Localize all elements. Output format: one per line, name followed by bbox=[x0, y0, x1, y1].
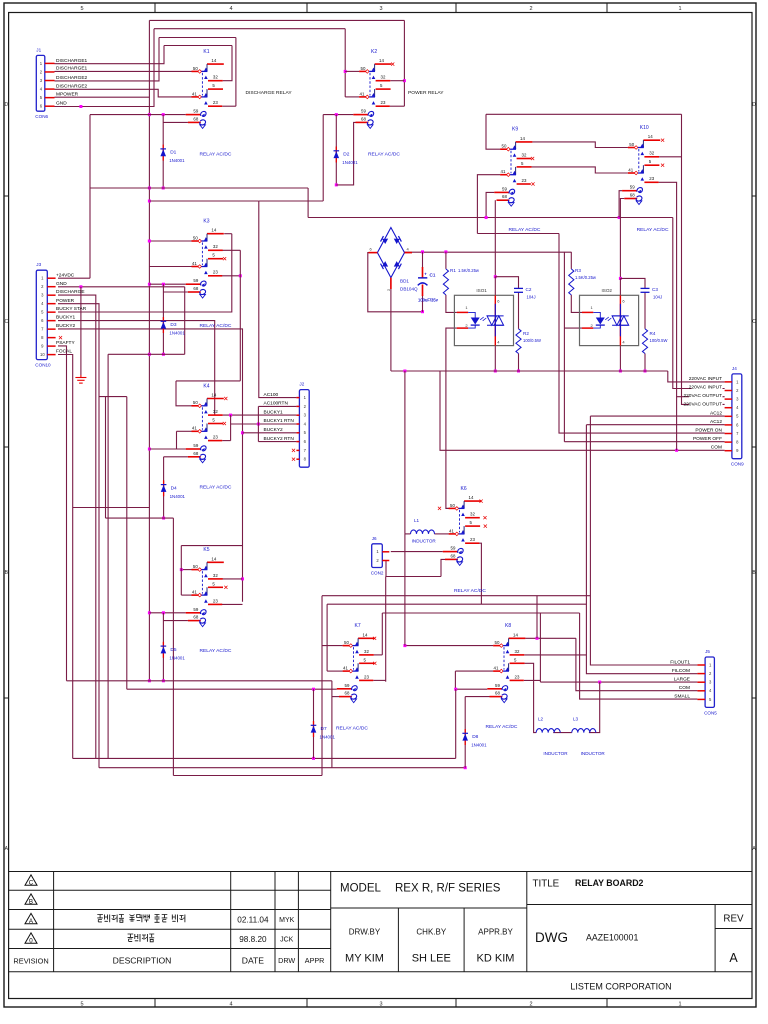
svg-text:J3: J3 bbox=[36, 262, 41, 267]
wire V230.6 bbox=[230, 415, 232, 441]
wire K4 pin32 to J2 pin3 bbox=[223, 414, 297, 416]
wire K9 pin14 to K10 pin50 bbox=[532, 142, 628, 148]
svg-text:POWER: POWER bbox=[56, 298, 75, 304]
svg-text:POWER RELAY: POWER RELAY bbox=[408, 90, 444, 96]
wire D1 chain bbox=[162, 115, 164, 188]
svg-text:59: 59 bbox=[495, 683, 500, 688]
wire V173.4 descent bbox=[172, 518, 174, 775]
junction bbox=[536, 637, 539, 640]
svg-text:DISCHARGE RELAY: DISCHARGE RELAY bbox=[246, 90, 293, 96]
svg-text:50: 50 bbox=[193, 66, 198, 71]
svg-text:32: 32 bbox=[381, 75, 386, 80]
svg-text:02.11.04: 02.11.04 bbox=[237, 916, 269, 925]
svg-text:K10: K10 bbox=[640, 125, 649, 131]
svg-text:68: 68 bbox=[345, 691, 350, 696]
relay K1 bbox=[186, 49, 224, 128]
svg-text:1: 1 bbox=[678, 6, 681, 12]
svg-text:RELAY AC/DC: RELAY AC/DC bbox=[336, 726, 368, 732]
svg-text:5: 5 bbox=[80, 1002, 83, 1008]
svg-text:BUCKY2 RTN: BUCKY2 RTN bbox=[264, 436, 295, 442]
junction bbox=[239, 274, 242, 277]
wire K9 pin41 loop bbox=[477, 175, 500, 234]
svg-text:KD KIM: KD KIM bbox=[477, 953, 515, 965]
relay K4 bbox=[186, 383, 224, 463]
svg-text:32: 32 bbox=[213, 573, 218, 578]
wire J5 pin4 route bbox=[576, 638, 698, 690]
svg-text:1N4001: 1N4001 bbox=[169, 331, 185, 336]
svg-text:K9: K9 bbox=[512, 127, 518, 133]
svg-text:14: 14 bbox=[379, 58, 384, 63]
svg-text:14: 14 bbox=[211, 228, 216, 233]
junction bbox=[162, 283, 165, 286]
svg-text:23: 23 bbox=[213, 100, 218, 105]
svg-text:K1: K1 bbox=[203, 49, 209, 55]
svg-text:CON5: CON5 bbox=[704, 710, 717, 715]
wire K3 pin41 ext bbox=[149, 266, 191, 268]
relay K3 bbox=[186, 219, 224, 299]
wire J5 pin5 route bbox=[580, 613, 698, 699]
svg-text:MODEL: MODEL bbox=[340, 883, 382, 895]
wire K7 pin32 ext bbox=[374, 654, 383, 656]
wire K8 pin41 ext bbox=[455, 670, 493, 672]
svg-text:DATE: DATE bbox=[242, 956, 265, 966]
svg-text:COM: COM bbox=[679, 685, 690, 691]
wire K4 loop top H381 bbox=[176, 380, 240, 382]
svg-text:L2: L2 bbox=[538, 717, 544, 722]
wire D3 chain bbox=[162, 284, 164, 354]
svg-text:41: 41 bbox=[494, 666, 499, 671]
svg-text:RELAY AC/DC: RELAY AC/DC bbox=[200, 648, 232, 654]
wire K5 pin41 ext bbox=[181, 594, 191, 596]
svg-text:INDUCTOR: INDUCTOR bbox=[543, 751, 568, 756]
wire K8 pin50 row bbox=[405, 645, 493, 647]
wire J2 pin2-pin6 link bbox=[258, 405, 296, 407]
wire V327.1 K7 pin41 bbox=[326, 604, 328, 671]
wire H595.7 bbox=[322, 595, 590, 597]
svg-text:32: 32 bbox=[364, 649, 369, 654]
wire V441 to K6 pin68 bbox=[441, 559, 445, 576]
junction bbox=[162, 517, 165, 520]
svg-text:14: 14 bbox=[469, 495, 474, 500]
svg-text:68: 68 bbox=[495, 691, 500, 696]
svg-text:41: 41 bbox=[192, 590, 197, 595]
svg-text:14: 14 bbox=[363, 632, 368, 637]
svg-text:BD1: BD1 bbox=[400, 279, 409, 284]
wire bridge bottom drop bbox=[390, 278, 392, 371]
wire K9 pin68 descent bbox=[494, 200, 496, 277]
wire H396.6 jog bbox=[99, 396, 127, 398]
junction bbox=[148, 187, 151, 190]
svg-text:23: 23 bbox=[470, 537, 475, 542]
wire C2-R2 mid bbox=[518, 292, 520, 329]
svg-text:1N4001: 1N4001 bbox=[342, 160, 358, 165]
svg-text:C: C bbox=[752, 319, 756, 325]
wire K2 flyback bottom bbox=[336, 122, 355, 184]
svg-text:41: 41 bbox=[192, 91, 197, 96]
svg-text:5: 5 bbox=[80, 6, 83, 12]
wire J3 pin6 BUCKY1 bbox=[58, 321, 215, 415]
svg-text:14: 14 bbox=[211, 393, 216, 398]
junction bbox=[619, 277, 622, 280]
svg-text:REVISION: REVISION bbox=[13, 956, 48, 965]
svg-text:K2: K2 bbox=[371, 49, 377, 55]
svg-text:32: 32 bbox=[515, 649, 520, 654]
wire V108 to bottom rail bbox=[107, 354, 109, 758]
svg-text:1.5K/0.25w: 1.5K/0.25w bbox=[458, 268, 480, 273]
svg-text:TITLE: TITLE bbox=[533, 879, 560, 890]
svg-text:MPOWER: MPOWER bbox=[56, 91, 79, 97]
wire ISO1 triac top bbox=[494, 277, 496, 296]
wire J6 pin1 to K6 pin59 bbox=[391, 551, 443, 553]
junction bbox=[494, 275, 497, 278]
junction bbox=[494, 370, 497, 373]
junction bbox=[148, 283, 151, 286]
wire bus H216 bbox=[308, 217, 673, 219]
svg-text:14: 14 bbox=[513, 632, 518, 637]
svg-text:+24VDC: +24VDC bbox=[56, 272, 75, 278]
wire V181.3 bbox=[180, 546, 182, 596]
svg-text:50: 50 bbox=[193, 400, 198, 405]
svg-text:J1: J1 bbox=[36, 47, 41, 52]
junction bbox=[148, 448, 151, 451]
svg-text:MYK: MYK bbox=[279, 917, 295, 924]
junction bbox=[421, 310, 424, 313]
wire V455.7 to rail bbox=[455, 689, 457, 758]
wire H201 right bbox=[259, 200, 323, 202]
svg-text:DISCHARGE: DISCHARGE bbox=[56, 289, 85, 295]
wire J4 pin1 from rail bbox=[668, 371, 725, 382]
svg-text:D2: D2 bbox=[343, 152, 349, 158]
svg-text:K5: K5 bbox=[203, 547, 209, 553]
wire V681.5 K10 pin32 to J4 pin4 bbox=[682, 114, 725, 404]
junction GND branch bbox=[79, 105, 82, 108]
svg-text:32: 32 bbox=[649, 151, 654, 156]
svg-text:59: 59 bbox=[193, 607, 198, 612]
svg-text:220VAC INPUT: 220VAC INPUT bbox=[689, 376, 722, 382]
wire J1 pin4 to K1 pin41 bbox=[55, 89, 192, 97]
junction bbox=[148, 200, 151, 203]
svg-text:50: 50 bbox=[361, 66, 366, 71]
svg-text:REX R, R/F SERIES: REX R, R/F SERIES bbox=[395, 883, 501, 895]
svg-text:1N4001: 1N4001 bbox=[170, 494, 186, 499]
wire C2 top link bbox=[495, 277, 518, 289]
revision triangle C bbox=[25, 875, 37, 885]
wire J3 pin1 +24V bbox=[58, 277, 90, 279]
svg-text:ISO1: ISO1 bbox=[476, 288, 487, 293]
svg-text:DB104Q: DB104Q bbox=[400, 287, 418, 292]
connector J5 CON5 bbox=[697, 649, 717, 715]
svg-text:FILOUT1: FILOUT1 bbox=[670, 659, 690, 665]
svg-text:B: B bbox=[29, 898, 33, 905]
svg-text:APPR: APPR bbox=[305, 956, 325, 965]
svg-text:BUCKY2: BUCKY2 bbox=[56, 323, 76, 329]
svg-text:FOCAL: FOCAL bbox=[56, 349, 72, 355]
wire K5 pin68 row bbox=[163, 620, 188, 622]
ground symbol bbox=[75, 375, 86, 383]
svg-text:2: 2 bbox=[529, 6, 532, 12]
svg-text:BUCKY STAR: BUCKY STAR bbox=[56, 306, 87, 312]
optocoupler ISO1 bbox=[454, 288, 513, 346]
svg-text:23: 23 bbox=[381, 100, 386, 105]
wire H201 bbox=[149, 200, 258, 202]
svg-text:D1: D1 bbox=[170, 150, 176, 156]
wire V455.4 bbox=[454, 671, 456, 689]
resistor R1 bbox=[443, 269, 448, 295]
inductor L1 bbox=[411, 518, 437, 544]
svg-text:23: 23 bbox=[522, 178, 527, 183]
junction bbox=[162, 353, 165, 356]
wire H507.5 bbox=[73, 507, 150, 509]
junction bbox=[180, 568, 183, 571]
wire D5 chain bbox=[162, 613, 164, 681]
wire left spine bbox=[148, 20, 150, 680]
wire D2 chain bbox=[335, 115, 337, 185]
wire J4 pin5 AC12 bbox=[590, 415, 724, 417]
svg-text:D: D bbox=[752, 102, 756, 108]
wire J3 pin4 POWER bbox=[58, 304, 99, 768]
wire R2 bottom bbox=[518, 354, 520, 372]
svg-text:D7: D7 bbox=[321, 726, 327, 732]
junction bbox=[148, 611, 151, 614]
junction bbox=[675, 449, 678, 452]
svg-text:GND: GND bbox=[56, 101, 67, 107]
svg-text:D5: D5 bbox=[170, 647, 176, 653]
wire V184.7 gnd to K3 loop bbox=[184, 287, 186, 355]
svg-text:23: 23 bbox=[364, 674, 369, 679]
svg-text:L3: L3 bbox=[573, 717, 579, 722]
junction bbox=[403, 370, 406, 373]
wire V235.9 bus3 to K1 pin23 bbox=[235, 38, 237, 107]
junction bbox=[241, 577, 244, 580]
wire J3 pin5 BUCKY START bbox=[58, 234, 232, 312]
svg-text:41: 41 bbox=[192, 261, 197, 266]
wire V486 to K9 pin50 bbox=[486, 114, 500, 149]
wire K1 flyback bottom H188 bbox=[90, 187, 308, 189]
svg-text:RELAY AC/DC: RELAY AC/DC bbox=[200, 152, 232, 158]
wire V404.9 lower bbox=[404, 534, 406, 646]
border zone ticks bottom bbox=[154, 999, 156, 1008]
svg-text:68: 68 bbox=[193, 615, 198, 620]
svg-text:104J: 104J bbox=[527, 295, 536, 300]
wire R1 top bbox=[445, 252, 447, 269]
junction bbox=[618, 216, 621, 219]
svg-text:AC100: AC100 bbox=[264, 392, 279, 398]
bridge terminals bbox=[369, 252, 378, 254]
svg-text:D3: D3 bbox=[170, 322, 176, 328]
wire J6 pin2 route bbox=[385, 560, 387, 576]
wire L3 right riser bbox=[589, 682, 600, 733]
svg-text:R2: R2 bbox=[523, 331, 529, 336]
svg-text:DRW.BY: DRW.BY bbox=[349, 928, 381, 937]
wire L2-L3 link bbox=[553, 732, 572, 734]
wire K3 pin32 ext bbox=[222, 249, 241, 251]
wire V537 bbox=[536, 596, 538, 639]
wire J4 pin8 POWER OFF bbox=[564, 441, 724, 443]
svg-text:23: 23 bbox=[213, 270, 218, 275]
svg-text:68: 68 bbox=[193, 116, 198, 121]
svg-text:41: 41 bbox=[192, 426, 197, 431]
svg-text:23: 23 bbox=[213, 435, 218, 440]
wire ISO2 triac bottom bbox=[619, 346, 621, 371]
svg-text:RELAY AC/DC: RELAY AC/DC bbox=[368, 152, 400, 158]
svg-text:LARGE: LARGE bbox=[674, 677, 690, 683]
revision triangle B bbox=[25, 894, 37, 904]
wire K9 pin5 to K10 pin41 bbox=[532, 167, 628, 173]
wire bus1 top bbox=[149, 19, 404, 21]
svg-text:POWER ON: POWER ON bbox=[695, 428, 722, 434]
wire V308 to bus216 bbox=[307, 188, 309, 218]
svg-text:23: 23 bbox=[515, 674, 520, 679]
junction bbox=[148, 240, 151, 243]
svg-text:59: 59 bbox=[193, 278, 198, 283]
svg-text:SMALL: SMALL bbox=[674, 694, 690, 700]
resistor R3 1.5K/0.25w bbox=[569, 269, 574, 295]
wire K10 pin23 to J4 pin3 bbox=[659, 182, 725, 396]
relay K5 bbox=[186, 547, 224, 627]
svg-text:3: 3 bbox=[379, 6, 382, 12]
svg-text:n: n bbox=[388, 287, 390, 292]
svg-text:59: 59 bbox=[451, 546, 456, 551]
svg-text:14: 14 bbox=[520, 136, 525, 141]
svg-text:23: 23 bbox=[213, 598, 218, 603]
wire H311 to C1 bbox=[391, 311, 423, 313]
wire J4 pin7 POWER ON bbox=[559, 234, 725, 434]
junction bbox=[444, 250, 447, 253]
svg-text:14: 14 bbox=[648, 134, 653, 139]
svg-text:DISCHARGE2: DISCHARGE2 bbox=[56, 83, 88, 89]
wire J4 pin9 COM link bbox=[440, 371, 725, 450]
svg-text:AC12: AC12 bbox=[710, 419, 722, 425]
junction bbox=[403, 79, 406, 82]
wire K5 pin59 row bbox=[149, 612, 185, 614]
svg-text:100uF/35v: 100uF/35v bbox=[418, 298, 439, 303]
wire K5 pin50 ext bbox=[181, 569, 191, 571]
diode D2 1N4001 bbox=[334, 147, 359, 166]
svg-text:LISTEM CORPORATION: LISTEM CORPORATION bbox=[570, 982, 671, 992]
relay K8 bbox=[487, 623, 525, 703]
wire K5 pin32 ext bbox=[222, 578, 243, 580]
junction bbox=[464, 766, 467, 769]
svg-text:41: 41 bbox=[449, 528, 454, 533]
wire K10 pin68 descent bbox=[620, 199, 624, 279]
junction bbox=[644, 370, 647, 373]
wire K9-K10 bus H114 bbox=[486, 113, 682, 115]
wire K8 pin59 row bbox=[456, 688, 488, 690]
svg-text:R3: R3 bbox=[575, 268, 581, 273]
svg-text:ISO2: ISO2 bbox=[602, 288, 613, 293]
wire K3 pin23 ext bbox=[221, 275, 240, 277]
wire V382.3 bbox=[381, 613, 383, 655]
wire K8 pin23 ext bbox=[524, 679, 541, 681]
wire V240.3 down to K4 loop bbox=[239, 250, 241, 381]
svg-text:J6: J6 bbox=[372, 536, 377, 541]
svg-text:CON9: CON9 bbox=[731, 462, 744, 467]
wire K3 pin50 ext bbox=[149, 240, 191, 242]
svg-text:59: 59 bbox=[193, 443, 198, 448]
junction bbox=[162, 611, 165, 614]
svg-text:1N4001: 1N4001 bbox=[471, 743, 487, 748]
svg-text:59: 59 bbox=[502, 186, 507, 191]
junction bbox=[162, 679, 165, 682]
svg-text:0: 0 bbox=[29, 937, 33, 944]
svg-text:BUCKY2: BUCKY2 bbox=[264, 427, 284, 433]
inductor L3 bbox=[572, 717, 606, 756]
svg-text:CON10: CON10 bbox=[35, 363, 51, 368]
svg-text:68: 68 bbox=[451, 553, 456, 558]
wire L1 feed V404.9 bbox=[404, 371, 406, 534]
junction bbox=[335, 183, 338, 186]
wire V676.6 lower bbox=[676, 397, 678, 451]
svg-text:RELAY AC/DC: RELAY AC/DC bbox=[200, 323, 232, 329]
svg-text:1: 1 bbox=[678, 1002, 681, 1008]
wire V126.8 descent bbox=[126, 397, 128, 690]
wire J4 pin6 AC12 bbox=[586, 424, 724, 426]
relay K10 bbox=[622, 125, 660, 205]
wire J1 pin6 GND to bus2 bbox=[55, 29, 155, 107]
svg-text:+: + bbox=[424, 272, 427, 277]
junction bbox=[148, 679, 151, 682]
junction bbox=[148, 240, 151, 243]
wire K7 pin59 row bbox=[127, 688, 337, 690]
wire V258.4 bbox=[257, 406, 259, 441]
revision row A text korean bbox=[97, 915, 185, 923]
J5 pin labels bbox=[672, 660, 690, 665]
svg-text:14: 14 bbox=[211, 556, 216, 561]
svg-text:50: 50 bbox=[502, 144, 507, 149]
svg-text:K8: K8 bbox=[505, 623, 511, 629]
wire GND symbol drop bbox=[80, 287, 82, 375]
junction bbox=[517, 370, 520, 373]
svg-text:JCK: JCK bbox=[280, 937, 294, 944]
optocoupler ISO2 bbox=[580, 288, 639, 346]
wire K2 pin59 row bbox=[323, 114, 353, 116]
svg-text:2: 2 bbox=[529, 1002, 532, 1008]
diode D1 1N4001 bbox=[160, 145, 185, 164]
svg-text:41: 41 bbox=[360, 91, 365, 96]
svg-text:R1: R1 bbox=[450, 268, 456, 273]
svg-text:D: D bbox=[4, 102, 8, 108]
svg-text:59: 59 bbox=[345, 683, 350, 688]
capacitor C2 104J bbox=[514, 287, 523, 289]
svg-text:AC12: AC12 bbox=[710, 410, 722, 416]
wire C1 bottom bbox=[422, 295, 424, 312]
wire J3 pin3 DISCHARGE bbox=[58, 295, 96, 758]
svg-text:DESCRIPTION: DESCRIPTION bbox=[113, 956, 172, 966]
svg-text:GND: GND bbox=[56, 281, 67, 287]
svg-text:50: 50 bbox=[193, 235, 198, 240]
revision triangle 0 bbox=[25, 933, 37, 943]
wire K4 pin68 row bbox=[164, 456, 188, 458]
wire J1 pin5 MPOWER bbox=[55, 96, 150, 98]
svg-text:C: C bbox=[29, 879, 34, 886]
svg-text:104J: 104J bbox=[653, 295, 662, 300]
wire K2 pin23 ext bbox=[390, 105, 405, 107]
svg-text:INDUCTOR: INDUCTOR bbox=[412, 539, 437, 544]
junction bbox=[454, 688, 457, 691]
wire V322 K7 pin50 bbox=[321, 596, 323, 776]
wire K3 pin14 riser ext bbox=[224, 233, 232, 235]
svg-text:CON6: CON6 bbox=[35, 114, 48, 119]
svg-text:PSAFTY: PSAFTY bbox=[56, 340, 75, 346]
svg-text:220VAC OUTPUT: 220VAC OUTPUT bbox=[683, 393, 722, 399]
svg-text:32: 32 bbox=[522, 152, 527, 157]
wire J2 pin6 row bbox=[258, 441, 296, 443]
wire J5 pin1 route bbox=[590, 416, 697, 665]
svg-text:DRW: DRW bbox=[278, 956, 295, 965]
wire K7 pin41 ext bbox=[327, 670, 343, 672]
wire K8 pin68 ext bbox=[465, 696, 489, 698]
svg-text:3: 3 bbox=[379, 1002, 382, 1008]
